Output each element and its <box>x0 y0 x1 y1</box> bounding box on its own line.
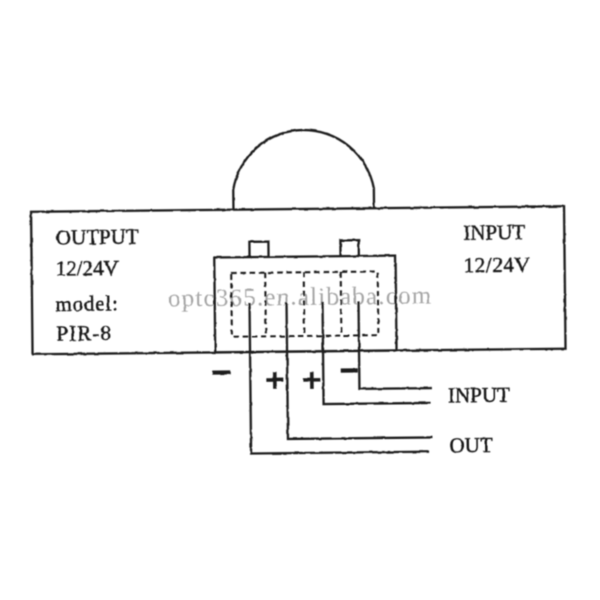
dashed divider 2 <box>303 272 306 336</box>
tab left <box>249 242 268 257</box>
svg-text:12/24V: 12/24V <box>56 256 119 281</box>
svg-text:optc365.en.alibaba.com: optc365.en.alibaba.com <box>168 283 433 313</box>
minus sign 2 <box>341 368 358 372</box>
dashed divider 3 <box>340 272 343 336</box>
connector block <box>214 256 396 353</box>
svg-text:OUT: OUT <box>449 433 493 457</box>
svg-text:12/24V: 12/24V <box>464 253 531 278</box>
svg-text:INPUT: INPUT <box>448 383 510 408</box>
dashed divider 1 <box>264 273 267 337</box>
tab right <box>340 240 358 256</box>
dashed terminal box <box>231 271 378 336</box>
wire 1 (terminal 1 to OUT lower line) <box>250 301 430 454</box>
minus sign 1 <box>213 370 231 374</box>
wire 2 (terminal 2 to OUT upper line) <box>287 301 433 439</box>
svg-text:model:: model: <box>55 291 118 316</box>
wire 4 (terminal 4 to INPUT upper line) <box>359 301 432 389</box>
svg-text:PIR-8: PIR-8 <box>56 321 112 346</box>
svg-text:INPUT: INPUT <box>463 220 525 245</box>
svg-text:OUTPUT: OUTPUT <box>56 225 139 250</box>
wire 3 (terminal 3 to INPUT lower line) <box>323 301 431 404</box>
module body rectangle <box>31 206 565 354</box>
plus sign 2 <box>303 372 320 389</box>
dome lens <box>233 129 374 210</box>
plus sign 1 <box>266 372 283 389</box>
